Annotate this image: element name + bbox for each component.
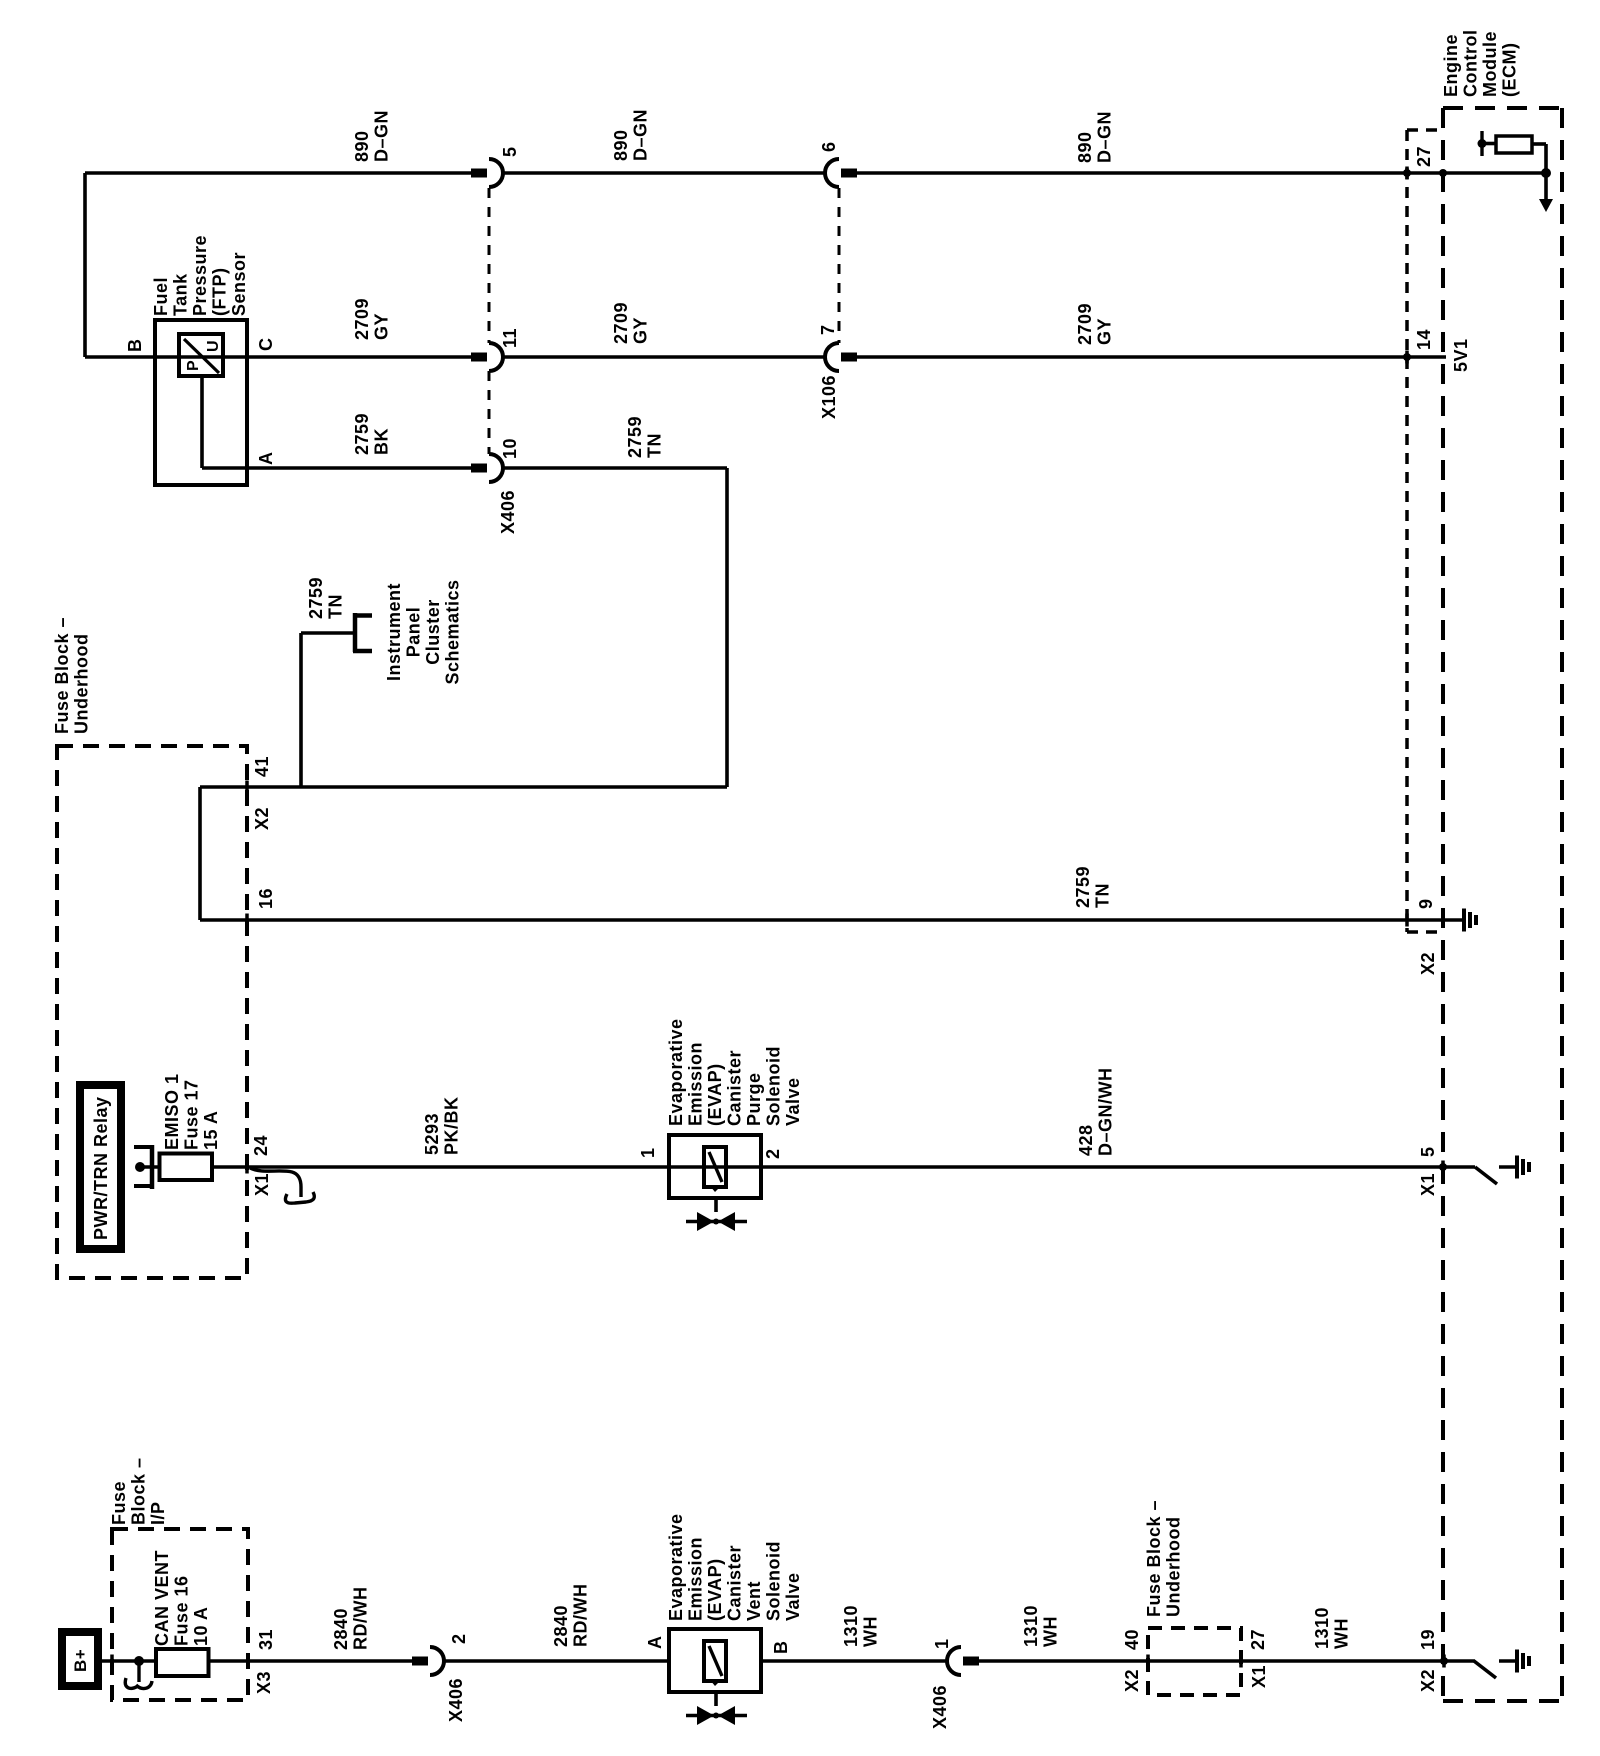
svg-text:2759: 2759 xyxy=(625,416,645,458)
svg-text:Fuse Block –: Fuse Block – xyxy=(52,617,72,734)
svg-text:X406: X406 xyxy=(446,1678,466,1722)
svg-text:X2: X2 xyxy=(1418,1669,1438,1692)
svg-text:X2: X2 xyxy=(1418,952,1438,975)
svg-text:X106: X106 xyxy=(819,375,839,419)
svg-text:PWR/TRN Relay: PWR/TRN Relay xyxy=(91,1096,111,1240)
svg-text:2709: 2709 xyxy=(352,298,372,340)
svg-text:BK: BK xyxy=(372,428,392,455)
svg-text:9: 9 xyxy=(1416,898,1436,909)
svg-text:890: 890 xyxy=(1075,131,1095,163)
svg-text:X406: X406 xyxy=(498,490,518,534)
svg-text:2709: 2709 xyxy=(1075,303,1095,345)
svg-text:D–GN: D–GN xyxy=(1095,111,1115,163)
svg-text:14: 14 xyxy=(1414,329,1434,350)
svg-text:11: 11 xyxy=(500,328,520,348)
svg-text:TN: TN xyxy=(645,433,665,458)
svg-text:Fuse 16: Fuse 16 xyxy=(172,1575,192,1646)
svg-text:PK/BK: PK/BK xyxy=(442,1096,462,1155)
svg-text:1310: 1310 xyxy=(841,1605,861,1647)
svg-text:Evaporative: Evaporative xyxy=(666,1513,686,1621)
svg-text:27: 27 xyxy=(1414,146,1434,167)
svg-text:2709: 2709 xyxy=(611,302,631,344)
svg-text:2759: 2759 xyxy=(352,413,372,455)
svg-text:Fuse 17: Fuse 17 xyxy=(182,1079,202,1150)
svg-text:Block –: Block – xyxy=(129,1457,149,1525)
svg-text:7: 7 xyxy=(818,324,838,335)
svg-text:TN: TN xyxy=(326,594,346,619)
svg-text:6: 6 xyxy=(819,141,839,152)
svg-text:(EVAP): (EVAP) xyxy=(705,1558,725,1621)
svg-text:CAN VENT: CAN VENT xyxy=(152,1550,172,1646)
svg-text:Pressure: Pressure xyxy=(190,235,210,316)
svg-text:890: 890 xyxy=(611,129,631,161)
svg-text:Solenoid: Solenoid xyxy=(764,1046,784,1126)
svg-text:1310: 1310 xyxy=(1021,1605,1041,1647)
svg-text:Solenoid: Solenoid xyxy=(764,1541,784,1621)
svg-text:1310: 1310 xyxy=(1312,1607,1332,1649)
svg-text:27: 27 xyxy=(1248,1629,1268,1650)
svg-text:X1: X1 xyxy=(1249,1665,1269,1688)
svg-text:5: 5 xyxy=(1418,1146,1438,1157)
svg-text:1: 1 xyxy=(932,1638,952,1649)
svg-text:P: P xyxy=(185,360,202,371)
svg-text:Engine: Engine xyxy=(1441,34,1461,97)
svg-text:X2: X2 xyxy=(252,807,272,830)
svg-text:X3: X3 xyxy=(254,1671,274,1694)
svg-text:Instrument: Instrument xyxy=(384,583,404,681)
svg-text:B: B xyxy=(771,1641,791,1655)
svg-text:D–GN/WH: D–GN/WH xyxy=(1096,1068,1116,1157)
svg-text:Cluster: Cluster xyxy=(423,599,443,665)
svg-text:D–GN: D–GN xyxy=(631,109,651,161)
svg-text:Fuel: Fuel xyxy=(151,277,171,316)
svg-text:Canister: Canister xyxy=(725,1545,745,1621)
svg-text:GY: GY xyxy=(372,313,392,340)
svg-text:2: 2 xyxy=(763,1148,783,1159)
svg-text:Panel: Panel xyxy=(404,607,424,658)
svg-text:WH: WH xyxy=(1041,1616,1061,1647)
svg-text:EMISO 1: EMISO 1 xyxy=(162,1073,182,1150)
svg-text:RD/WH: RD/WH xyxy=(571,1584,591,1648)
svg-text:U: U xyxy=(205,340,222,352)
svg-text:X1: X1 xyxy=(252,1173,272,1196)
svg-text:5293: 5293 xyxy=(422,1113,442,1155)
svg-text:C: C xyxy=(256,338,276,352)
svg-text:Fuse: Fuse xyxy=(109,1481,129,1525)
svg-text:Canister: Canister xyxy=(725,1050,745,1126)
svg-text:Emission: Emission xyxy=(686,1537,706,1621)
svg-text:Evaporative: Evaporative xyxy=(666,1018,686,1126)
svg-text:A: A xyxy=(256,452,276,466)
svg-text:Underhood: Underhood xyxy=(1164,1517,1184,1618)
svg-text:A: A xyxy=(645,1636,665,1650)
svg-text:40: 40 xyxy=(1122,1629,1142,1650)
svg-text:2759: 2759 xyxy=(1073,866,1093,908)
svg-text:5V1: 5V1 xyxy=(1451,338,1471,372)
svg-text:Underhood: Underhood xyxy=(72,634,92,735)
svg-text:41: 41 xyxy=(252,756,272,777)
svg-text:I/P: I/P xyxy=(148,1501,168,1525)
svg-text:2840: 2840 xyxy=(551,1605,571,1647)
svg-text:B+: B+ xyxy=(71,1649,90,1672)
svg-text:(FTP): (FTP) xyxy=(210,268,230,316)
svg-text:GY: GY xyxy=(1095,318,1115,345)
svg-text:TN: TN xyxy=(1093,883,1113,908)
svg-text:31: 31 xyxy=(256,1629,276,1650)
svg-text:X1: X1 xyxy=(1418,1173,1438,1196)
svg-text:GY: GY xyxy=(631,317,651,344)
svg-text:X2: X2 xyxy=(1122,1669,1142,1692)
svg-text:Valve: Valve xyxy=(783,1077,803,1126)
svg-text:D–GN: D–GN xyxy=(372,110,392,162)
svg-text:24: 24 xyxy=(251,1135,271,1156)
svg-text:10: 10 xyxy=(500,438,520,459)
svg-text:Control: Control xyxy=(1461,30,1481,97)
svg-text:19: 19 xyxy=(1418,1629,1438,1650)
svg-text:Sensor: Sensor xyxy=(229,252,249,316)
svg-text:Emission: Emission xyxy=(686,1042,706,1126)
svg-text:10 A: 10 A xyxy=(191,1607,211,1646)
svg-text:Schematics: Schematics xyxy=(443,579,463,684)
svg-text:16: 16 xyxy=(256,888,276,909)
svg-text:Valve: Valve xyxy=(783,1572,803,1621)
svg-text:2: 2 xyxy=(449,1633,469,1644)
svg-text:428: 428 xyxy=(1076,1124,1096,1156)
svg-text:WH: WH xyxy=(861,1616,881,1647)
svg-text:RD/WH: RD/WH xyxy=(351,1587,371,1651)
svg-text:Purge: Purge xyxy=(744,1072,764,1126)
svg-text:Fuse Block –: Fuse Block – xyxy=(1144,1500,1164,1617)
svg-text:Vent: Vent xyxy=(744,1581,764,1621)
svg-text:(EVAP): (EVAP) xyxy=(705,1063,725,1126)
svg-text:2759: 2759 xyxy=(306,577,326,619)
svg-text:Tank: Tank xyxy=(171,273,191,316)
svg-text:2840: 2840 xyxy=(331,1608,351,1650)
svg-text:(ECM): (ECM) xyxy=(1500,43,1520,98)
svg-text:1: 1 xyxy=(638,1147,658,1158)
svg-text:X406: X406 xyxy=(930,1685,950,1729)
svg-text:890: 890 xyxy=(352,130,372,162)
svg-text:B: B xyxy=(125,339,145,353)
svg-text:15 A: 15 A xyxy=(201,1111,221,1150)
svg-text:5: 5 xyxy=(500,146,520,157)
svg-text:Module: Module xyxy=(1480,31,1500,97)
svg-text:WH: WH xyxy=(1332,1618,1352,1649)
